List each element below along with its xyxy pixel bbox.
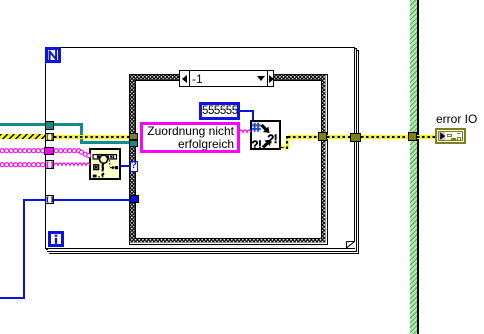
svg-text:?!: ?! xyxy=(252,139,261,148)
